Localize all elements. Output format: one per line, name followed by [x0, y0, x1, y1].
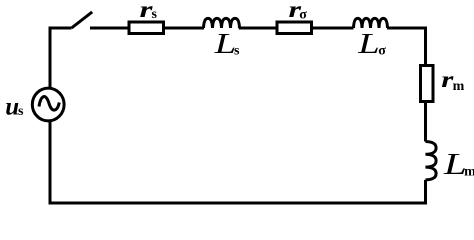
svg-text:s: s [234, 44, 240, 59]
svg-text:s: s [152, 7, 158, 22]
svg-text:σ: σ [299, 8, 307, 23]
svg-text:L: L [214, 29, 237, 60]
svg-text:σ: σ [378, 44, 386, 59]
svg-text:s: s [18, 104, 24, 119]
svg-text:m: m [453, 79, 465, 94]
svg-text:L: L [357, 29, 380, 60]
svg-text:m: m [464, 164, 474, 179]
